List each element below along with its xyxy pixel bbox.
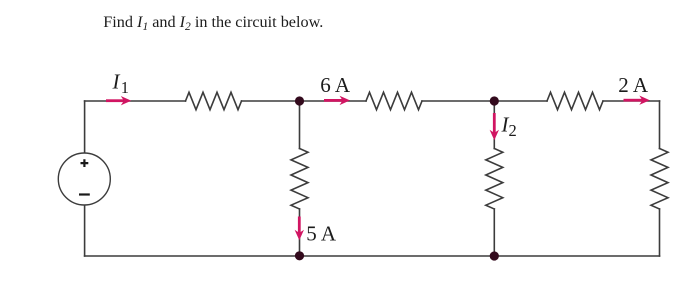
resistor R4 bbox=[291, 149, 308, 210]
resistor R6 bbox=[651, 149, 668, 210]
svg-text:Find I1 and I2 in the circuit: Find I1 and I2 in the circuit below. bbox=[103, 13, 323, 33]
current arrow 6A bbox=[324, 96, 350, 105]
node D bbox=[490, 251, 499, 260]
current arrow I1 bbox=[106, 96, 131, 105]
voltage source V1 bbox=[58, 153, 110, 205]
node A bbox=[295, 96, 304, 105]
svg-text:I2: I2 bbox=[501, 113, 517, 140]
wire top-left segment bbox=[85, 100, 186, 102]
wire middle branch 1 upper bbox=[299, 101, 301, 149]
current arrow 2A bbox=[624, 96, 650, 105]
wire right branch lower bbox=[659, 209, 661, 256]
current arrow 5A bbox=[295, 217, 304, 241]
wire left branch lower bbox=[84, 205, 86, 256]
svg-text:5 A: 5 A bbox=[306, 222, 337, 246]
wire right branch upper bbox=[659, 101, 661, 149]
resistor R5 bbox=[486, 149, 503, 210]
wire top-right segment bbox=[603, 100, 660, 102]
resistor R2 bbox=[366, 92, 422, 109]
node C bbox=[295, 251, 304, 260]
svg-text:I1: I1 bbox=[112, 70, 130, 97]
resistor R3 bbox=[547, 92, 603, 109]
wire top segment node A to R2 bbox=[242, 100, 367, 102]
svg-text:6 A: 6 A bbox=[320, 73, 351, 97]
wire bottom bbox=[85, 255, 660, 257]
resistor R1 bbox=[186, 92, 242, 109]
wire left branch upper bbox=[84, 101, 86, 153]
svg-text:2 A: 2 A bbox=[618, 73, 649, 97]
wire middle branch 2 upper bbox=[493, 101, 495, 149]
wire middle branch 2 lower bbox=[493, 209, 495, 256]
wire middle branch 1 lower bbox=[299, 209, 301, 256]
node B bbox=[490, 96, 499, 105]
wire top segment R2 to node B bbox=[422, 100, 547, 102]
current arrow I2 bbox=[490, 113, 499, 140]
